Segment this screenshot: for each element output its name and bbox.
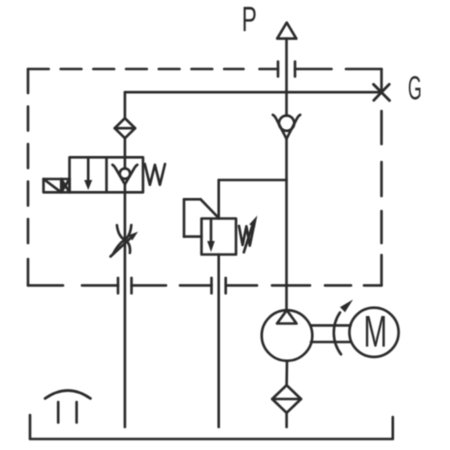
relief valve spring W bbox=[239, 226, 254, 246]
shaft between pump and motor bbox=[311, 325, 351, 342]
pump outlet triangle bbox=[277, 310, 297, 323]
solenoid valve body (2-position) bbox=[70, 157, 144, 192]
solenoid actuator box bbox=[44, 179, 70, 192]
rotation direction arrow bbox=[334, 300, 353, 355]
port label G bbox=[409, 76, 421, 100]
spring W on solenoid valve right side bbox=[145, 164, 165, 185]
port label P bbox=[244, 7, 256, 31]
relief valve pilot line bbox=[184, 199, 219, 236]
plug X at gauge port G bbox=[374, 84, 390, 100]
relief valve adjustment arrow bbox=[244, 216, 257, 253]
enclosure border bottom (dashed) bbox=[28, 284, 382, 287]
suction filter (diamond with bar) bbox=[272, 385, 301, 413]
motor circle bbox=[349, 308, 398, 357]
relief valve body bbox=[202, 219, 237, 255]
check valve (diamond with bar) on left branch bbox=[115, 118, 135, 138]
enclosure border top (dashed) bbox=[28, 68, 382, 71]
breather / filler cap bbox=[45, 391, 91, 423]
tank bbox=[30, 415, 393, 439]
wire: relief valve inlet from main line bbox=[219, 180, 287, 219]
wire: main line check valve to pump bbox=[285, 139, 288, 310]
relief valve internal arrow (down) bbox=[207, 220, 215, 253]
wire: solenoid valve down through throttle to tank bbox=[124, 192, 127, 427]
wire: gauge line from left branch to plug G bbox=[125, 91, 382, 94]
wire: filter to tank bbox=[285, 413, 288, 427]
check valve on main line (ball in seat) bbox=[273, 115, 300, 139]
enclosure border top crossing ticks bbox=[278, 62, 295, 77]
enclosure border right (dashed) bbox=[380, 69, 383, 285]
wire: left branch vertical from gauge line to diamond check valve bbox=[124, 92, 127, 118]
wire: pump to filter bbox=[285, 361, 288, 385]
throttle valve (adjustable restrictor) bbox=[111, 225, 139, 257]
port P symbol (triangle) bbox=[277, 23, 296, 39]
wire: relief valve drain to tank bbox=[217, 255, 220, 428]
pump circle bbox=[262, 310, 313, 361]
solenoid valve left cell arrow (down) bbox=[84, 158, 92, 191]
solenoid valve right cell check symbol (ball in seat) bbox=[113, 157, 138, 192]
enclosure border left (dashed) bbox=[27, 69, 30, 285]
wire: P line down to check valve bbox=[285, 39, 288, 116]
wire: diamond check valve to solenoid valve bbox=[124, 138, 127, 157]
enclosure border bottom crossing ticks bbox=[118, 278, 226, 293]
motor label M bbox=[366, 316, 385, 347]
